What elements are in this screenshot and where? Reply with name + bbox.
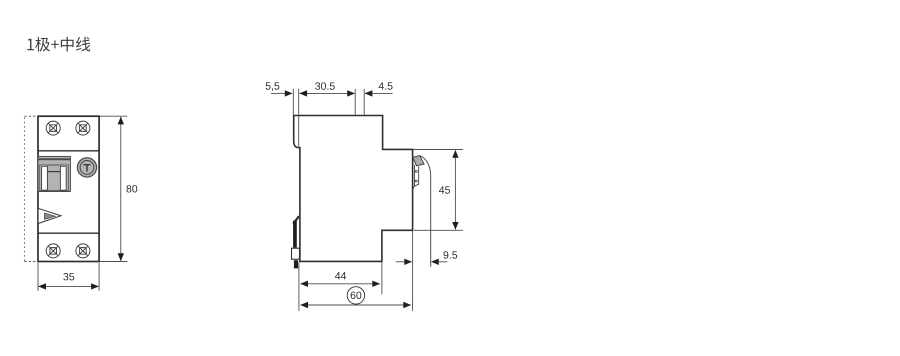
toggle housing dark top bar [38, 158, 70, 160]
indicator triangle [38, 208, 61, 223]
test button [77, 158, 96, 177]
terminal screw top-left [46, 121, 60, 135]
toggle cutout [40, 165, 68, 191]
dashed mounting outline [24, 116, 38, 261]
dimension 4.5 [363, 89, 365, 115]
upper terminal separator [38, 150, 99, 152]
DIN rail clip [293, 216, 299, 224]
terminal screw top-right [76, 121, 90, 135]
toggle cutout gray side strips [40, 165, 42, 190]
title 1极+中线 [27, 37, 90, 52]
dimension 5,5 [292, 89, 294, 115]
toggle lever left [42, 166, 48, 190]
dimension 45 [413, 149, 463, 151]
dimension 30.5 [298, 89, 300, 149]
dimension 80 [100, 115, 127, 117]
terminal screw head (side) [413, 156, 424, 166]
dimension 9.5 [396, 261, 406, 263]
dimension 35 [37, 263, 39, 291]
breaker front body [38, 116, 99, 261]
side profile outline [294, 116, 413, 262]
terminal screw bottom-right [76, 244, 90, 258]
toggle switch housing [38, 156, 70, 191]
dimension (60) [412, 231, 414, 311]
dimension 44 [298, 262, 300, 311]
wire clamp [413, 165, 419, 190]
terminal screw bottom-left [46, 244, 60, 258]
toggle lever right [60, 166, 66, 190]
lower terminal separator [38, 232, 99, 234]
toggle center rocker [47, 165, 60, 190]
terminal housing curve [420, 156, 431, 267]
